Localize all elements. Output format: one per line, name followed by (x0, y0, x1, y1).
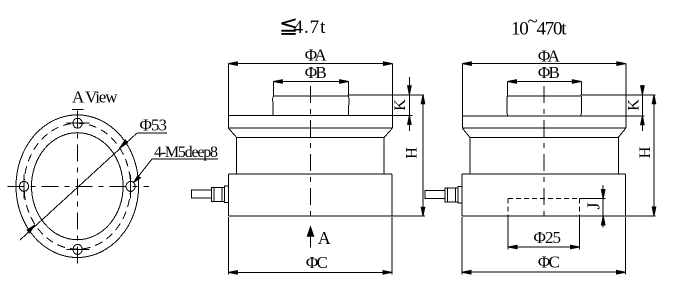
svg-text:ΦB: ΦB (538, 63, 560, 82)
svg-text:4-M5deep8: 4-M5deep8 (154, 144, 218, 161)
svg-text:ΦC: ΦC (306, 253, 328, 272)
svg-text:Φ53: Φ53 (140, 116, 168, 135)
svg-text:K: K (626, 99, 643, 111)
svg-text:H: H (404, 147, 421, 159)
svg-text:ΦA: ΦA (305, 45, 328, 64)
svg-text:A View: A View (72, 88, 118, 107)
svg-text:4.7t: 4.7t (294, 17, 327, 38)
svg-text:ΦB: ΦB (305, 63, 327, 82)
svg-text:J: J (584, 202, 604, 209)
svg-text:Φ25: Φ25 (534, 228, 562, 247)
svg-text:H: H (637, 146, 654, 158)
svg-text:A: A (318, 228, 331, 248)
svg-text:ΦC: ΦC (538, 253, 560, 272)
svg-text:K: K (392, 99, 409, 111)
